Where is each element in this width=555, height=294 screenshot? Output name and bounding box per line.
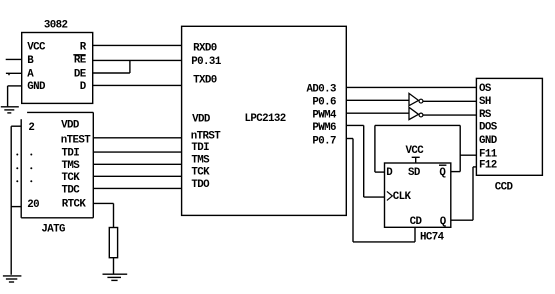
svg-text:nTRST: nTRST [191,130,222,142]
svg-text:DE: DE [74,69,87,81]
svg-text:P0.7: P0.7 [312,135,336,147]
svg-text:TDI: TDI [62,147,80,159]
svg-text:TXD0: TXD0 [193,75,217,87]
svg-text:VDD: VDD [192,114,211,126]
svg-text:GND: GND [27,81,46,93]
svg-text:TDI: TDI [191,142,209,154]
svg-text:P0.6: P0.6 [312,96,336,108]
svg-text:GND: GND [479,135,498,147]
svg-text:AD0.3: AD0.3 [306,84,336,96]
svg-text:2: 2 [28,122,34,134]
svg-text:CCD: CCD [495,182,514,194]
svg-text:DOS: DOS [479,122,498,134]
svg-text:TDC: TDC [62,185,81,197]
svg-text:CLK: CLK [393,191,412,203]
svg-text:RS: RS [479,109,492,121]
svg-text:F12: F12 [479,160,497,172]
svg-text:20: 20 [27,199,39,211]
svg-text:RXD0: RXD0 [193,42,217,54]
svg-text:TMS: TMS [191,154,210,166]
svg-text:SD: SD [408,167,421,179]
svg-text:TDO: TDO [191,179,210,191]
svg-text:PWM4: PWM4 [312,110,337,122]
svg-text:SH: SH [479,96,491,108]
svg-text:F11: F11 [479,148,498,160]
svg-text:3082: 3082 [44,20,68,32]
svg-text:RE: RE [74,54,87,66]
svg-text:VDD: VDD [61,120,80,132]
svg-text:OS: OS [479,83,492,95]
svg-text:JATG: JATG [41,223,65,235]
svg-text:PWM6: PWM6 [312,122,336,134]
svg-text:TCK: TCK [191,167,210,179]
svg-text:LPC2132: LPC2132 [245,113,286,125]
svg-text:RTCK: RTCK [62,198,87,210]
svg-text:nTEST: nTEST [61,134,92,146]
svg-text:VCC: VCC [406,145,425,157]
svg-text:VCC: VCC [27,42,46,54]
svg-text:CD: CD [410,216,423,228]
svg-text:TMS: TMS [62,160,81,172]
svg-text:HC74: HC74 [420,232,445,244]
svg-text:P0.31: P0.31 [191,56,222,68]
svg-text:TCK: TCK [62,172,81,184]
